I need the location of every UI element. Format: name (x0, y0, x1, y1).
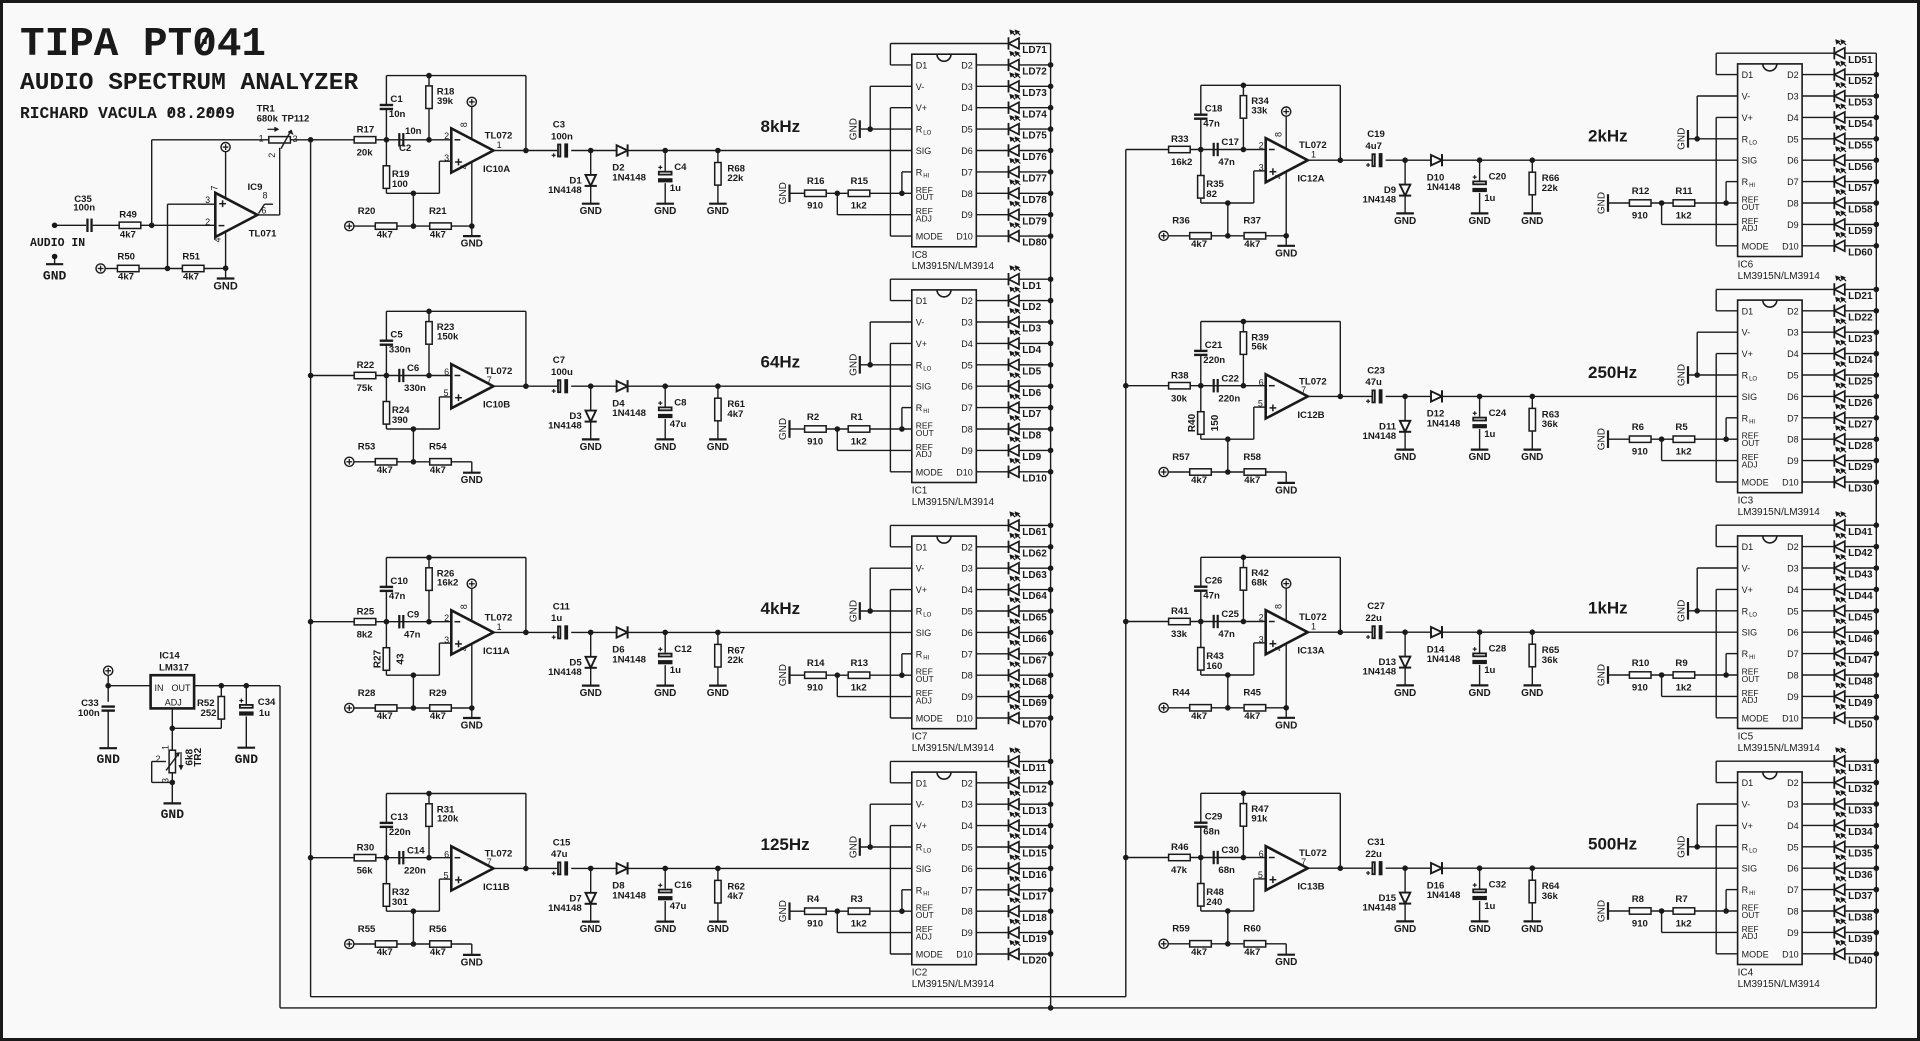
svg-text:IC4: IC4 (1738, 968, 1754, 979)
svg-text:D4: D4 (1787, 349, 1799, 359)
svg-text:LD1: LD1 (1022, 281, 1041, 292)
svg-text:R22: R22 (357, 360, 375, 371)
svg-text:4k7: 4k7 (377, 947, 393, 958)
svg-text:R36: R36 (1172, 216, 1190, 227)
svg-text:D8: D8 (1787, 199, 1799, 209)
svg-text:4k7: 4k7 (377, 711, 393, 722)
svg-text:MODE: MODE (1742, 949, 1769, 959)
svg-text:GND: GND (1468, 452, 1490, 463)
svg-text:C25: C25 (1221, 609, 1239, 620)
svg-text:LD77: LD77 (1022, 174, 1047, 185)
svg-text:301: 301 (392, 897, 409, 908)
svg-text:ADJ: ADJ (1742, 695, 1758, 705)
svg-text:R46: R46 (1171, 842, 1189, 853)
svg-text:GND: GND (848, 354, 859, 376)
svg-text:C4: C4 (674, 162, 687, 173)
svg-text:82: 82 (1206, 189, 1217, 200)
svg-text:LM3915N/LM3914: LM3915N/LM3914 (912, 743, 995, 754)
svg-text:GND: GND (707, 688, 729, 699)
svg-text:16k2: 16k2 (1171, 157, 1192, 168)
svg-text:D7: D7 (1787, 177, 1799, 187)
svg-text:D10: D10 (956, 714, 973, 724)
svg-text:1N4148: 1N4148 (1362, 667, 1396, 678)
svg-text:D10: D10 (956, 950, 973, 960)
svg-text:LO: LO (923, 613, 931, 619)
svg-text:1u: 1u (670, 183, 681, 194)
svg-text:220n: 220n (1218, 393, 1240, 404)
svg-text:56k: 56k (357, 865, 374, 876)
svg-text:D6: D6 (1787, 864, 1799, 874)
svg-text:LD30: LD30 (1848, 484, 1873, 495)
svg-text:GND: GND (1394, 216, 1416, 227)
svg-text:2: 2 (1259, 613, 1264, 623)
svg-text:IC5: IC5 (1738, 732, 1754, 743)
svg-text:IC10B: IC10B (483, 400, 510, 411)
svg-text:LM3915N/LM3914: LM3915N/LM3914 (912, 497, 995, 508)
svg-text:LM3915N/LM3914: LM3915N/LM3914 (912, 261, 995, 272)
svg-text:LD12: LD12 (1022, 784, 1047, 795)
svg-text:OUT: OUT (1742, 674, 1760, 684)
svg-text:4u7: 4u7 (1365, 141, 1382, 152)
svg-text:6: 6 (444, 367, 449, 377)
svg-text:4k7: 4k7 (1244, 947, 1260, 958)
svg-text:20k: 20k (357, 148, 374, 159)
svg-text:R: R (1742, 134, 1749, 144)
svg-text:TL071: TL071 (249, 229, 277, 240)
svg-text:R17: R17 (357, 124, 375, 135)
svg-text:D6: D6 (961, 864, 973, 874)
svg-text:D2: D2 (961, 296, 973, 306)
svg-text:D1: D1 (1742, 306, 1754, 316)
svg-text:IC11B: IC11B (483, 882, 510, 893)
svg-text:8kHz: 8kHz (761, 117, 801, 136)
svg-text:47n: 47n (1203, 119, 1220, 130)
svg-text:HI: HI (1749, 891, 1755, 897)
svg-text:910: 910 (807, 436, 823, 447)
svg-text:LD75: LD75 (1022, 131, 1047, 142)
svg-text:1N4148: 1N4148 (1427, 418, 1461, 429)
svg-text:LD28: LD28 (1848, 441, 1873, 452)
svg-text:D4: D4 (1787, 821, 1799, 831)
svg-text:C24: C24 (1489, 408, 1507, 419)
svg-text:R14: R14 (807, 658, 825, 669)
svg-text:4k7: 4k7 (1244, 475, 1260, 486)
svg-text:LD5: LD5 (1022, 366, 1041, 377)
svg-text:36k: 36k (1542, 655, 1559, 666)
svg-text:47u: 47u (551, 849, 568, 860)
svg-text:D2: D2 (1787, 778, 1799, 788)
svg-text:D4: D4 (1787, 113, 1799, 123)
svg-text:LD41: LD41 (1848, 527, 1873, 538)
svg-text:GND: GND (1677, 364, 1688, 386)
svg-text:910: 910 (1632, 918, 1648, 929)
svg-text:100n: 100n (78, 708, 100, 719)
svg-text:LD38: LD38 (1848, 913, 1873, 924)
svg-text:2: 2 (205, 217, 210, 227)
svg-text:C5: C5 (390, 330, 403, 341)
svg-text:IC13A: IC13A (1297, 646, 1324, 657)
svg-text:GND: GND (1597, 664, 1608, 686)
svg-text:GND: GND (1521, 688, 1543, 699)
svg-text:120k: 120k (437, 814, 459, 825)
svg-text:LD6: LD6 (1022, 388, 1041, 399)
svg-text:D3: D3 (1787, 564, 1799, 574)
svg-text:LD71: LD71 (1022, 45, 1047, 56)
svg-text:R54: R54 (429, 442, 447, 453)
svg-text:D3: D3 (961, 564, 973, 574)
svg-text:4: 4 (459, 164, 469, 169)
svg-text:910: 910 (1632, 682, 1648, 693)
svg-text:1N4148: 1N4148 (1362, 431, 1396, 442)
svg-text:C12: C12 (674, 644, 692, 655)
svg-text:R10: R10 (1632, 658, 1650, 669)
svg-text:C2: C2 (399, 143, 411, 154)
svg-text:6: 6 (261, 205, 266, 215)
svg-text:LD22: LD22 (1848, 312, 1873, 323)
svg-text:100n: 100n (551, 131, 573, 142)
svg-text:220n: 220n (1203, 355, 1225, 366)
svg-text:D3: D3 (961, 82, 973, 92)
svg-text:IC6: IC6 (1738, 260, 1754, 271)
svg-text:R58: R58 (1243, 452, 1261, 463)
svg-text:4k7: 4k7 (377, 229, 393, 240)
svg-text:LD33: LD33 (1848, 806, 1873, 817)
svg-text:1: 1 (497, 140, 502, 150)
svg-text:68n: 68n (1218, 865, 1235, 876)
svg-text:R: R (1742, 649, 1749, 659)
svg-text:160: 160 (1206, 661, 1222, 672)
svg-text:D9: D9 (961, 210, 973, 220)
svg-text:TR2: TR2 (193, 747, 204, 766)
svg-text:IC2: IC2 (912, 968, 928, 979)
svg-text:D6: D6 (1787, 156, 1799, 166)
svg-text:LM3915N/LM3914: LM3915N/LM3914 (912, 979, 995, 990)
svg-text:390: 390 (392, 415, 408, 426)
svg-text:GND: GND (707, 442, 729, 453)
svg-text:4: 4 (212, 237, 222, 242)
svg-text:910: 910 (807, 919, 823, 930)
svg-text:D10: D10 (1782, 241, 1799, 251)
svg-text:D8: D8 (961, 189, 973, 199)
svg-text:OUT: OUT (916, 428, 934, 438)
svg-text:16k2: 16k2 (437, 578, 458, 589)
svg-text:1: 1 (497, 622, 502, 632)
svg-text:1N4148: 1N4148 (612, 408, 646, 419)
svg-text:LO: LO (1749, 848, 1757, 854)
svg-text:GND: GND (848, 600, 859, 622)
svg-text:C28: C28 (1489, 644, 1507, 655)
svg-text:LM3915N/LM3914: LM3915N/LM3914 (1738, 271, 1821, 282)
svg-text:GND: GND (1597, 428, 1608, 450)
svg-text:33k: 33k (1171, 629, 1188, 640)
svg-text:LD4: LD4 (1022, 345, 1041, 356)
svg-text:IC1: IC1 (912, 486, 928, 497)
svg-text:1u: 1u (1484, 429, 1495, 440)
svg-text:R: R (1742, 606, 1749, 616)
svg-text:C13: C13 (390, 812, 408, 823)
svg-text:C26: C26 (1205, 576, 1223, 587)
svg-text:D6: D6 (1787, 628, 1799, 638)
svg-text:4k7: 4k7 (1244, 239, 1260, 250)
svg-text:D10: D10 (956, 232, 973, 242)
svg-text:D1: D1 (1742, 778, 1754, 788)
svg-text:SIG: SIG (916, 382, 932, 392)
svg-text:D5: D5 (961, 843, 973, 853)
svg-text:GND: GND (461, 475, 483, 486)
svg-text:1k2: 1k2 (1676, 682, 1692, 693)
svg-text:LD62: LD62 (1022, 548, 1047, 559)
svg-text:3: 3 (293, 134, 298, 144)
svg-text:D4: D4 (961, 821, 973, 831)
svg-text:LD10: LD10 (1022, 473, 1047, 484)
svg-text:ADJ: ADJ (1742, 931, 1758, 941)
svg-text:LO: LO (923, 366, 931, 372)
svg-text:1N4148: 1N4148 (1427, 890, 1461, 901)
svg-text:LD18: LD18 (1022, 913, 1047, 924)
svg-text:V+: V+ (1742, 585, 1753, 595)
svg-text:R: R (1742, 413, 1749, 423)
svg-text:D4: D4 (961, 339, 973, 349)
svg-text:GND: GND (1468, 924, 1490, 935)
svg-text:R15: R15 (851, 176, 869, 187)
svg-text:LD48: LD48 (1848, 677, 1873, 688)
svg-text:SIG: SIG (916, 864, 932, 874)
svg-text:1u: 1u (259, 708, 270, 719)
svg-text:R: R (1742, 842, 1749, 852)
svg-text:HI: HI (1749, 655, 1755, 661)
svg-text:47n: 47n (404, 629, 421, 640)
svg-text:3: 3 (1259, 163, 1264, 173)
svg-text:2: 2 (1259, 141, 1264, 151)
svg-text:V-: V- (916, 82, 925, 92)
svg-text:OUT: OUT (1742, 438, 1760, 448)
svg-text:GND: GND (1394, 688, 1416, 699)
svg-text:8: 8 (263, 190, 268, 200)
svg-text:240: 240 (1206, 897, 1222, 908)
svg-text:R16: R16 (807, 176, 825, 187)
svg-text:SIG: SIG (1742, 156, 1758, 166)
svg-text:LD20: LD20 (1022, 956, 1047, 967)
svg-text:D4: D4 (1787, 585, 1799, 595)
svg-text:1u: 1u (1484, 665, 1495, 676)
svg-text:R2: R2 (807, 412, 819, 423)
svg-text:C34: C34 (258, 697, 276, 708)
svg-text:LD23: LD23 (1848, 334, 1873, 345)
svg-text:LO: LO (923, 131, 931, 137)
svg-text:10n: 10n (389, 109, 406, 120)
svg-text:1k2: 1k2 (851, 919, 867, 930)
svg-text:1u: 1u (1484, 901, 1495, 912)
svg-text:47k: 47k (1171, 865, 1188, 876)
svg-text:150: 150 (1210, 414, 1221, 431)
svg-text:GND: GND (1677, 836, 1688, 858)
svg-text:1k2: 1k2 (851, 683, 867, 694)
svg-text:V-: V- (1742, 328, 1751, 338)
svg-text:GND: GND (1394, 924, 1416, 935)
svg-text:LD26: LD26 (1848, 398, 1873, 409)
svg-text:ADJ: ADJ (916, 695, 932, 705)
svg-text:LD31: LD31 (1848, 763, 1873, 774)
svg-text:47u: 47u (670, 901, 687, 912)
svg-text:6: 6 (444, 849, 449, 859)
svg-text:LM3915N/LM3914: LM3915N/LM3914 (1738, 743, 1821, 754)
svg-text:8k2: 8k2 (357, 629, 373, 640)
svg-text:R4: R4 (807, 894, 820, 905)
svg-text:C19: C19 (1367, 129, 1385, 140)
svg-text:HI: HI (923, 409, 929, 415)
svg-text:C21: C21 (1205, 340, 1223, 351)
svg-text:GND: GND (1468, 216, 1490, 227)
svg-text:47n: 47n (1203, 591, 1220, 602)
svg-text:IN: IN (155, 683, 164, 693)
svg-text:HI: HI (923, 173, 929, 179)
svg-text:D9: D9 (961, 928, 973, 938)
svg-text:R6: R6 (1632, 422, 1644, 433)
svg-text:75k: 75k (357, 383, 374, 394)
svg-text:IC7: IC7 (912, 732, 928, 743)
svg-text:4k7: 4k7 (120, 229, 136, 240)
svg-text:D1: D1 (1742, 70, 1754, 80)
svg-text:GND: GND (1521, 924, 1543, 935)
svg-text:D1: D1 (1742, 542, 1754, 552)
svg-text:4k7: 4k7 (1191, 947, 1207, 958)
svg-text:OUT: OUT (916, 910, 934, 920)
svg-text:LM317: LM317 (159, 662, 189, 673)
svg-text:R30: R30 (357, 842, 375, 853)
svg-text:GND: GND (580, 688, 602, 699)
svg-text:IC12B: IC12B (1297, 410, 1324, 421)
svg-text:1k2: 1k2 (1676, 447, 1692, 458)
svg-text:LD51: LD51 (1848, 55, 1873, 66)
svg-text:R59: R59 (1172, 924, 1190, 935)
svg-text:IC12A: IC12A (1297, 174, 1324, 185)
svg-text:1k2: 1k2 (851, 436, 867, 447)
svg-text:R: R (1742, 177, 1749, 187)
svg-text:C15: C15 (553, 837, 571, 848)
svg-text:1k2: 1k2 (851, 201, 867, 212)
svg-text:47u: 47u (1365, 377, 1382, 388)
svg-text:39k: 39k (437, 96, 454, 107)
svg-text:LD24: LD24 (1848, 355, 1873, 366)
svg-text:2: 2 (444, 131, 449, 141)
svg-text:D8: D8 (1787, 907, 1799, 917)
svg-text:4k7: 4k7 (118, 272, 134, 283)
svg-text:LD68: LD68 (1022, 677, 1047, 688)
svg-text:OUT: OUT (172, 683, 192, 693)
svg-text:LD54: LD54 (1848, 119, 1873, 130)
svg-text:V+: V+ (1742, 113, 1753, 123)
svg-text:4k7: 4k7 (430, 229, 446, 240)
svg-text:LD69: LD69 (1022, 698, 1047, 709)
svg-text:GND: GND (1677, 600, 1688, 622)
svg-text:D7: D7 (961, 167, 973, 177)
svg-text:MODE: MODE (916, 232, 943, 242)
svg-text:5: 5 (443, 870, 448, 880)
svg-text:GND: GND (1597, 192, 1608, 214)
svg-text:8: 8 (459, 604, 469, 609)
svg-text:1N4148: 1N4148 (548, 903, 582, 914)
svg-text:22u: 22u (1365, 849, 1382, 860)
svg-text:R: R (916, 125, 923, 135)
svg-text:GND: GND (235, 752, 259, 767)
svg-text:D6: D6 (961, 146, 973, 156)
svg-text:LD79: LD79 (1022, 216, 1047, 227)
svg-text:LD19: LD19 (1022, 934, 1047, 945)
svg-text:1k2: 1k2 (1676, 918, 1692, 929)
svg-text:LD76: LD76 (1022, 152, 1047, 163)
svg-text:GND: GND (654, 206, 676, 217)
svg-text:MODE: MODE (916, 467, 943, 477)
svg-text:GND: GND (461, 721, 483, 732)
svg-text:D5: D5 (1787, 371, 1799, 381)
svg-text:7: 7 (210, 185, 220, 190)
svg-text:47u: 47u (670, 419, 687, 430)
svg-text:2: 2 (155, 754, 160, 764)
svg-text:LD17: LD17 (1022, 891, 1047, 902)
svg-text:4k7: 4k7 (727, 409, 743, 420)
svg-text:LD78: LD78 (1022, 195, 1047, 206)
svg-text:30k: 30k (1171, 393, 1188, 404)
svg-text:4k7: 4k7 (183, 272, 199, 283)
svg-text:LD56: LD56 (1848, 162, 1873, 173)
svg-text:R: R (916, 167, 923, 177)
svg-text:V-: V- (916, 800, 925, 810)
svg-text:R11: R11 (1675, 186, 1693, 197)
svg-text:C32: C32 (1489, 880, 1507, 891)
svg-text:GND: GND (580, 206, 602, 217)
svg-text:RICHARD VACULA 08.2009: RICHARD VACULA 08.2009 (20, 104, 235, 123)
svg-text:LD16: LD16 (1022, 870, 1047, 881)
svg-text:R56: R56 (429, 924, 447, 935)
svg-text:LD11: LD11 (1022, 763, 1046, 774)
svg-text:LD74: LD74 (1022, 109, 1047, 120)
svg-text:LD63: LD63 (1022, 570, 1047, 581)
svg-text:R27: R27 (372, 649, 383, 668)
svg-text:C9: C9 (407, 609, 419, 620)
svg-text:C18: C18 (1205, 104, 1223, 115)
svg-text:ADJ: ADJ (165, 698, 182, 708)
svg-text:64Hz: 64Hz (761, 353, 801, 372)
svg-text:D10: D10 (1782, 713, 1799, 723)
svg-text:GND: GND (778, 900, 789, 922)
svg-text:D2: D2 (961, 778, 973, 788)
svg-text:100n: 100n (73, 202, 95, 213)
svg-text:IC8: IC8 (912, 250, 928, 261)
svg-text:LD80: LD80 (1022, 238, 1047, 249)
svg-text:GND: GND (1275, 720, 1297, 731)
svg-text:LD43: LD43 (1848, 570, 1873, 581)
svg-text:LD47: LD47 (1848, 655, 1873, 666)
svg-text:R: R (916, 885, 923, 895)
svg-text:GND: GND (1521, 216, 1543, 227)
svg-text:GND: GND (580, 924, 602, 935)
svg-text:LD46: LD46 (1848, 634, 1873, 645)
svg-text:LD66: LD66 (1022, 634, 1047, 645)
svg-text:LD67: LD67 (1022, 655, 1047, 666)
svg-text:C17: C17 (1221, 137, 1239, 148)
svg-text:D7: D7 (961, 885, 973, 895)
svg-text:4k7: 4k7 (377, 465, 393, 476)
svg-text:ADJ: ADJ (1742, 223, 1758, 233)
svg-text:LD8: LD8 (1022, 431, 1041, 442)
svg-text:D10: D10 (1782, 478, 1799, 488)
svg-text:V+: V+ (1742, 349, 1753, 359)
svg-text:MODE: MODE (1742, 713, 1769, 723)
svg-text:47n: 47n (389, 591, 406, 602)
svg-text:SIG: SIG (916, 146, 932, 156)
svg-text:LD39: LD39 (1848, 934, 1873, 945)
svg-text:C3: C3 (553, 120, 565, 131)
